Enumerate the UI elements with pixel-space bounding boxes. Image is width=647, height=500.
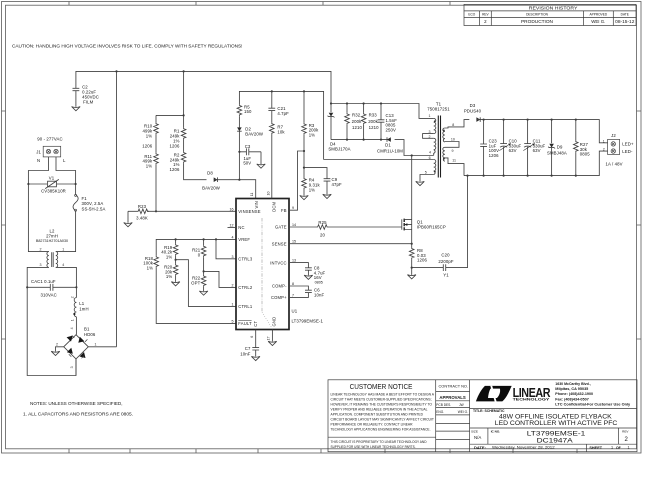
svg-text:CT: CT bbox=[253, 321, 258, 327]
svg-text:2: 2 bbox=[232, 283, 234, 287]
svg-text:DATE:: DATE: bbox=[474, 445, 486, 450]
svg-text:NC: NC bbox=[238, 225, 244, 230]
svg-text:1210: 1210 bbox=[352, 125, 362, 130]
svg-text:APPROVALS: APPROVALS bbox=[439, 395, 466, 400]
svg-text:1A / 48V: 1A / 48V bbox=[606, 161, 623, 166]
capacitor C2 bbox=[73, 85, 99, 107]
svg-text:LED+: LED+ bbox=[622, 142, 634, 147]
ground at C3 bbox=[257, 164, 266, 168]
svg-text:CUSTOMER NOTICE: CUSTOMER NOTICE bbox=[350, 382, 413, 391]
resistor R20 bbox=[164, 264, 178, 279]
wire C8 to ground bbox=[307, 270, 309, 275]
svg-text:5: 5 bbox=[425, 170, 427, 174]
resistor R4 bbox=[302, 178, 321, 193]
varistor V1 bbox=[27, 175, 76, 193]
capacitor C8 bbox=[305, 265, 326, 284]
svg-text:GND: GND bbox=[272, 317, 277, 327]
svg-text:1%: 1% bbox=[166, 255, 172, 260]
svg-text:VINSENSE: VINSENSE bbox=[238, 209, 260, 214]
wire DC+ bus vertical bbox=[116, 71, 118, 346]
wire R5 to D2 bbox=[238, 116, 240, 127]
svg-text:1206: 1206 bbox=[170, 167, 180, 172]
diode D2 bbox=[237, 126, 264, 136]
resistor R10 bbox=[142, 115, 158, 148]
svg-text:TITLE: SCHEMATIC: TITLE: SCHEMATIC bbox=[473, 409, 505, 413]
svg-text:REV: REV bbox=[622, 429, 629, 433]
svg-text:1: 1 bbox=[232, 302, 234, 306]
capacitor CAC1 bbox=[26, 279, 77, 297]
wire R20 to ground bbox=[175, 276, 177, 282]
svg-text:LED CONTROLLER WITH ACTIVE PFC: LED CONTROLLER WITH ACTIVE PFC bbox=[495, 420, 618, 427]
ground at C2 bbox=[72, 107, 81, 111]
svg-text:1: 1 bbox=[603, 139, 605, 143]
wire R7 to U1 DCM pin10 bbox=[271, 135, 273, 199]
Linear Technology logo bbox=[476, 382, 630, 407]
svg-text:2: 2 bbox=[71, 296, 75, 298]
svg-text:Y1: Y1 bbox=[443, 273, 449, 278]
svg-text:IPB60R165CP: IPB60R165CP bbox=[417, 225, 446, 230]
svg-text:2: 2 bbox=[429, 135, 431, 139]
svg-text:SMBJ48A: SMBJ48A bbox=[547, 150, 567, 155]
svg-text:4: 4 bbox=[62, 263, 64, 267]
wire R21/R22 node to CTRL2, U1 pin2 bbox=[204, 257, 236, 287]
svg-text:9: 9 bbox=[292, 206, 294, 210]
svg-text:D9: D9 bbox=[557, 145, 563, 150]
wire R22 to ground bbox=[203, 287, 205, 291]
svg-text:Phone: (408)432-1900: Phone: (408)432-1900 bbox=[555, 392, 593, 396]
svg-text:11: 11 bbox=[250, 193, 254, 197]
svg-text:6: 6 bbox=[250, 336, 254, 338]
svg-text:SS-5H-2.5A: SS-5H-2.5A bbox=[82, 206, 106, 211]
svg-text:8: 8 bbox=[452, 123, 454, 127]
wire T1 pin11 to output return bbox=[445, 158, 464, 176]
svg-text:CTRL2: CTRL2 bbox=[238, 285, 253, 290]
svg-text:4: 4 bbox=[232, 235, 234, 239]
svg-text:DCM: DCM bbox=[271, 201, 276, 211]
wire J1-L to fuse rail bbox=[56, 157, 76, 195]
wire VINSENSE node to U1 pin16 bbox=[156, 210, 236, 212]
wire C9 to ground bbox=[326, 181, 328, 194]
svg-text:27mH: 27mH bbox=[46, 233, 58, 238]
svg-text:PRODUCTION: PRODUCTION bbox=[521, 19, 553, 24]
svg-text:3: 3 bbox=[40, 263, 42, 267]
svg-text:10: 10 bbox=[451, 137, 455, 141]
wire output bottom rail bbox=[464, 151, 608, 177]
wire R23 to ground bbox=[127, 211, 129, 223]
svg-text:1206: 1206 bbox=[417, 258, 427, 263]
fuse F1 bbox=[73, 194, 105, 211]
svg-text:LT3799EMSE-1: LT3799EMSE-1 bbox=[292, 318, 324, 323]
svg-text:CMR1U-10M: CMR1U-10M bbox=[377, 149, 403, 154]
wire U1 SENSE pin15 to R8 node bbox=[289, 243, 413, 245]
ground at R23 bbox=[124, 223, 133, 227]
wire bias rail bbox=[239, 90, 323, 159]
svg-text:1206: 1206 bbox=[142, 144, 152, 149]
wire C21 to R7 bbox=[271, 111, 273, 123]
title block bbox=[328, 380, 637, 452]
svg-text:4: 4 bbox=[70, 327, 74, 329]
wire VREF rail bbox=[156, 238, 236, 256]
svg-text:PCB DES.: PCB DES. bbox=[436, 403, 451, 407]
svg-text:15: 15 bbox=[292, 240, 296, 244]
svg-text:1: 1 bbox=[62, 247, 64, 251]
svg-text:Wednesday, November 28, 2012: Wednesday, November 28, 2012 bbox=[492, 445, 555, 450]
svg-text:9: 9 bbox=[452, 149, 454, 153]
svg-text:1%: 1% bbox=[309, 133, 315, 138]
svg-text:GATE: GATE bbox=[275, 225, 287, 230]
wire FB node to U1 pin9 bbox=[289, 151, 304, 210]
svg-text:CIRCUIT THAT MEETS CUSTOMER-SU: CIRCUIT THAT MEETS CUSTOMER-SUPPLIED SPE… bbox=[331, 397, 432, 401]
svg-text:ENG.: ENG. bbox=[436, 410, 444, 414]
capacitor C13 bbox=[378, 104, 398, 140]
svg-text:PERFORMANCE OR RELIABILITY. C: PERFORMANCE OR RELIABILITY. CONTACT LINE… bbox=[331, 422, 414, 426]
svg-text:150: 150 bbox=[244, 109, 252, 114]
transistor Q1 bbox=[402, 219, 446, 231]
svg-text:IC NO.: IC NO. bbox=[491, 429, 501, 433]
wire R3 to FB node and R4 bbox=[303, 135, 305, 178]
wire left AC rail down to L2 pin2 bbox=[28, 184, 48, 252]
resistor R22 bbox=[191, 275, 206, 287]
ground at C9 bbox=[323, 194, 332, 198]
connector J1 (AC input) bbox=[36, 137, 66, 164]
capacitor C23 bbox=[480, 120, 499, 176]
svg-text:B82731H2701A030: B82731H2701A030 bbox=[36, 239, 68, 243]
svg-text:N: N bbox=[37, 158, 40, 163]
svg-text:ECO: ECO bbox=[468, 13, 475, 17]
svg-text:CTRL3: CTRL3 bbox=[238, 257, 253, 262]
resistor R3 bbox=[302, 91, 319, 137]
svg-text:FILM: FILM bbox=[83, 99, 94, 104]
svg-text:R23: R23 bbox=[138, 204, 147, 209]
svg-text:12: 12 bbox=[230, 224, 234, 228]
svg-text:11: 11 bbox=[452, 159, 456, 163]
svg-text:1: 1 bbox=[628, 445, 630, 449]
wire D8 to VIN node bbox=[214, 179, 256, 199]
svg-text:JW: JW bbox=[459, 403, 464, 407]
capacitor C21 bbox=[268, 91, 289, 115]
svg-text:6: 6 bbox=[429, 156, 431, 160]
svg-text:200k: 200k bbox=[368, 119, 378, 124]
wire R11 to VINSENSE node bbox=[155, 165, 157, 213]
svg-text:CAUTION: HANDLING HIGH VOLTAGE: CAUTION: HANDLING HIGH VOLTAGE INVOLVES … bbox=[12, 43, 243, 48]
svg-text:C20: C20 bbox=[441, 253, 450, 258]
svg-text:1mH: 1mH bbox=[79, 306, 88, 311]
svg-text:HOWEVER, IT REMAINS THE CUSTOM: HOWEVER, IT REMAINS THE CUSTOMER'S RESPO… bbox=[331, 402, 433, 406]
svg-text:APPROVED: APPROVED bbox=[589, 13, 607, 17]
svg-text:1: 1 bbox=[429, 114, 431, 118]
svg-text:Fax: (408)434-0507: Fax: (408)434-0507 bbox=[555, 397, 589, 401]
wire T1 pin10 to pin9 link bbox=[445, 137, 459, 153]
resistor R27 bbox=[574, 120, 591, 176]
svg-text:D1: D1 bbox=[385, 143, 391, 148]
svg-text:BAV20W: BAV20W bbox=[245, 132, 264, 137]
svg-text:OF: OF bbox=[616, 446, 621, 450]
svg-text:8: 8 bbox=[292, 282, 294, 286]
wire U1 CT pin6 to C7 bbox=[255, 330, 257, 348]
resistor R25 bbox=[317, 220, 329, 238]
svg-text:17: 17 bbox=[267, 337, 271, 341]
ground at R22 bbox=[199, 291, 208, 295]
svg-text:0805: 0805 bbox=[580, 152, 590, 157]
svg-text:VIN: VIN bbox=[254, 201, 259, 208]
wire R4 to ground bbox=[303, 190, 305, 196]
resistor R2 bbox=[170, 151, 186, 172]
resistor R1 bbox=[170, 128, 186, 149]
ground at C8 bbox=[304, 275, 313, 279]
wire U1 GND pin17 bbox=[271, 330, 273, 342]
svg-text:2: 2 bbox=[40, 247, 42, 251]
svg-text:2200pF: 2200pF bbox=[438, 259, 453, 264]
wire U1 INTVCC pin13 to C8 bbox=[289, 263, 308, 268]
wire B1 pin3 down bbox=[75, 359, 77, 376]
svg-text:47pF: 47pF bbox=[332, 182, 342, 187]
svg-text:J1: J1 bbox=[36, 149, 41, 154]
svg-text:3.48K: 3.48K bbox=[136, 216, 148, 221]
svg-text:63V: 63V bbox=[509, 148, 517, 153]
svg-text:1206: 1206 bbox=[170, 143, 180, 148]
svg-text:1206: 1206 bbox=[489, 153, 499, 158]
svg-text:16: 16 bbox=[230, 207, 234, 211]
ground at C7 bbox=[251, 356, 260, 360]
svg-text:20: 20 bbox=[320, 233, 325, 238]
svg-text:SUPPLIED FOR USE WITH LINEAR T: SUPPLIED FOR USE WITH LINEAR TECHNOLOGY … bbox=[331, 445, 416, 449]
svg-text:63V: 63V bbox=[533, 148, 541, 153]
svg-text:750817251: 750817251 bbox=[427, 107, 450, 112]
resistor R33 bbox=[361, 104, 379, 140]
svg-text:DATE: DATE bbox=[621, 13, 629, 17]
svg-text:1%: 1% bbox=[146, 164, 152, 169]
wire R18 to FAULT line, U1 pin5 bbox=[156, 268, 236, 324]
wire VREF to CTRL3, U1 pin3 bbox=[216, 239, 236, 258]
svg-text:1: 1 bbox=[611, 445, 613, 449]
svg-text:D8: D8 bbox=[207, 171, 213, 176]
wire R2 to D8 bbox=[184, 163, 207, 179]
zener D9 bbox=[547, 120, 567, 176]
wire C3 to ground bbox=[260, 152, 262, 164]
svg-text:SIZE: SIZE bbox=[471, 429, 478, 433]
svg-text:310VAC: 310VAC bbox=[41, 293, 57, 298]
svg-text:14: 14 bbox=[292, 223, 296, 227]
wire R10 to R11 bbox=[155, 135, 157, 153]
svg-text:10: 10 bbox=[267, 192, 271, 196]
wire CAC1 left rail down to B1 pin3 loop bbox=[27, 287, 76, 375]
svg-text:PDUS40: PDUS40 bbox=[464, 109, 482, 114]
wire B1 pin2 to ground bbox=[56, 347, 64, 352]
ground at R20 bbox=[171, 282, 180, 286]
svg-text:TECHNOLOGY APPLICATIONS ENGINE: TECHNOLOGY APPLICATIONS ENGINEERING FOR … bbox=[331, 427, 431, 431]
svg-text:VREF: VREF bbox=[238, 237, 250, 242]
svg-text:3: 3 bbox=[232, 255, 234, 259]
diode D3 bbox=[464, 103, 482, 122]
svg-text:50V: 50V bbox=[243, 160, 251, 165]
svg-text:R32: R32 bbox=[352, 113, 361, 118]
svg-text:OPT: OPT bbox=[191, 280, 200, 285]
svg-text:DC1947A: DC1947A bbox=[537, 437, 574, 444]
svg-text:REVISION HISTORY: REVISION HISTORY bbox=[529, 5, 578, 10]
svg-text:NOTES: UNLESS OTHERWISE SPECIF: NOTES: UNLESS OTHERWISE SPECIFIED, bbox=[30, 401, 122, 406]
wire R1 to R2 bbox=[183, 140, 185, 152]
wire Q1 drain/source vertical bbox=[411, 156, 413, 244]
revision history table bbox=[464, 4, 636, 25]
svg-text:FB: FB bbox=[281, 208, 287, 213]
capacitor C7 bbox=[240, 346, 259, 357]
wire clamp top rail bbox=[330, 102, 434, 118]
svg-text:1. ALL CAPACITORS AND RESISTOR: 1. ALL CAPACITORS AND RESISTORS ARE 0805… bbox=[23, 412, 133, 417]
svg-text:V1: V1 bbox=[49, 175, 55, 180]
svg-text:TECHNOLOGY: TECHNOLOGY bbox=[513, 398, 551, 402]
svg-text:R33: R33 bbox=[369, 113, 378, 118]
capacitor C9 bbox=[304, 168, 342, 187]
wire L2 pin3 to CAC1 left rail bbox=[27, 267, 49, 287]
svg-text:LTC Confidential-For Customer: LTC Confidential-For Customer Use Only bbox=[555, 402, 630, 406]
svg-text:Milpitas, CA 95035: Milpitas, CA 95035 bbox=[555, 387, 588, 391]
wire J1-N to left AC rail bbox=[28, 157, 48, 184]
svg-text:13: 13 bbox=[292, 259, 296, 263]
svg-text:WEI G.: WEI G. bbox=[591, 19, 605, 24]
transformer T1 bbox=[420, 102, 450, 182]
wire L2 pin4 to CAC1 right rail bbox=[56, 267, 77, 287]
resistor R18 bbox=[143, 256, 158, 271]
wire top DC+ rail bbox=[76, 70, 331, 103]
diode D8 bbox=[202, 171, 221, 191]
svg-text:1: 1 bbox=[71, 319, 75, 321]
bridge rectifier B1 bbox=[56, 327, 97, 369]
ground at T1 pin5 bbox=[416, 181, 425, 185]
svg-text:3: 3 bbox=[70, 366, 74, 368]
svg-text:4.7pF: 4.7pF bbox=[277, 111, 289, 116]
resistor R32 bbox=[345, 104, 363, 140]
svg-text:16V: 16V bbox=[314, 275, 322, 280]
svg-text:4: 4 bbox=[429, 151, 431, 155]
svg-text:10k: 10k bbox=[277, 129, 285, 134]
svg-text:1%: 1% bbox=[166, 274, 172, 279]
wire U1 GATE pin14 to R25 bbox=[289, 226, 317, 228]
svg-text:THIS CIRCUIT IS PROPRIETARY TO: THIS CIRCUIT IS PROPRIETARY TO LINEAR TE… bbox=[331, 440, 428, 444]
svg-text:5: 5 bbox=[232, 319, 234, 323]
svg-text:COMP+: COMP+ bbox=[271, 295, 287, 300]
svg-text:BAV20W: BAV20W bbox=[202, 185, 221, 190]
resistor R23 bbox=[128, 204, 156, 220]
wire clamp bottom rail bbox=[331, 139, 391, 141]
svg-text:DESCRIPTION: DESCRIPTION bbox=[526, 13, 548, 17]
wire output top rail bbox=[476, 119, 607, 143]
connector J2 (LED output) bbox=[603, 133, 634, 167]
svg-text:APPLICATION. COMPONENT SUBSTIT: APPLICATION. COMPONENT SUBSTITUTION AND … bbox=[331, 412, 424, 416]
inductor L1 bbox=[71, 287, 89, 334]
svg-text:LED-: LED- bbox=[622, 149, 633, 154]
capacitor C20 bbox=[412, 176, 468, 278]
svg-text:COMP-: COMP- bbox=[272, 284, 287, 289]
ground at B1 pin2 bbox=[51, 351, 60, 355]
resistor R11 bbox=[142, 153, 158, 169]
wire D1 to drain node bbox=[395, 140, 434, 157]
svg-text:SENSE: SENSE bbox=[272, 241, 287, 246]
capacitor C6 between COMP pins bbox=[289, 286, 324, 298]
wire T1 pin8 to D3 bbox=[445, 120, 469, 128]
svg-text:CTRL1: CTRL1 bbox=[238, 304, 253, 309]
svg-text:1%: 1% bbox=[309, 187, 315, 192]
svg-text:1210: 1210 bbox=[369, 125, 379, 130]
svg-text:SHEET: SHEET bbox=[589, 446, 602, 450]
capacitor C3 bbox=[239, 144, 261, 165]
svg-text:90 - 277VAC: 90 - 277VAC bbox=[37, 137, 62, 142]
svg-text:INTVCC: INTVCC bbox=[270, 260, 287, 265]
common mode choke L2 bbox=[36, 228, 68, 267]
wire R8 to ground bbox=[411, 259, 413, 275]
svg-text:D3: D3 bbox=[470, 103, 476, 108]
svg-text:R25: R25 bbox=[318, 220, 327, 225]
svg-text:CAC1 0.1uF: CAC1 0.1uF bbox=[31, 279, 56, 284]
svg-text:2: 2 bbox=[56, 342, 58, 346]
svg-text:1%: 1% bbox=[146, 133, 152, 138]
wire R25 to Q1 gate bbox=[329, 226, 402, 228]
svg-text:CONTRACT NO.: CONTRACT NO. bbox=[439, 384, 469, 389]
wire D2 to VIN node bbox=[238, 131, 240, 180]
svg-text:1630 McCarthy Blvd.,: 1630 McCarthy Blvd., bbox=[555, 382, 590, 386]
svg-text:1: 1 bbox=[95, 342, 97, 346]
svg-text:10nF: 10nF bbox=[314, 293, 324, 298]
svg-text:REV: REV bbox=[482, 13, 489, 17]
notes text bbox=[23, 401, 133, 417]
svg-text:VERIFY PROPER AND RELIABLE OPE: VERIFY PROPER AND RELIABLE OPERATION IN … bbox=[331, 407, 428, 411]
svg-text:1%: 1% bbox=[147, 266, 153, 271]
svg-text:C7: C7 bbox=[245, 346, 251, 351]
capacitor C10 bbox=[499, 120, 521, 176]
svg-text:250V: 250V bbox=[386, 128, 396, 133]
resistor R7 bbox=[270, 123, 286, 135]
svg-text:C3: C3 bbox=[245, 144, 251, 149]
ground at R8 bbox=[407, 275, 416, 279]
resistor R5 bbox=[237, 104, 252, 116]
svg-text:U1: U1 bbox=[292, 309, 298, 314]
svg-text:FAULT: FAULT bbox=[238, 321, 252, 326]
resistor R19 bbox=[161, 239, 178, 260]
svg-text:0805: 0805 bbox=[315, 281, 323, 285]
wire R1 chain from DC+ rail bbox=[156, 71, 185, 127]
zener D4 bbox=[328, 104, 351, 152]
svg-text:WEI G.: WEI G. bbox=[458, 410, 468, 414]
resistor R21 bbox=[192, 239, 206, 272]
svg-text:10nF: 10nF bbox=[240, 351, 250, 356]
svg-text:HD06: HD06 bbox=[84, 332, 96, 337]
svg-text:200k: 200k bbox=[352, 119, 362, 124]
svg-text:J2: J2 bbox=[611, 133, 616, 138]
svg-text:LINEAR TECHNOLOGY HAS MADE A B: LINEAR TECHNOLOGY HAS MADE A BEST EFFORT… bbox=[331, 392, 435, 396]
resistor R8 bbox=[409, 244, 427, 269]
svg-text:08-15-12: 08-15-12 bbox=[615, 19, 635, 24]
wire R19/R20 node to CTRL1, U1 pin1 bbox=[176, 256, 236, 307]
wire B1 pin1 to DC bus bbox=[88, 346, 116, 348]
svg-text:CV385K10R: CV385K10R bbox=[41, 189, 66, 194]
svg-text:7: 7 bbox=[292, 293, 294, 297]
wire fuse to L2 pin1 bbox=[56, 211, 76, 252]
capacitor C11 bbox=[523, 120, 545, 176]
svg-text:N/A: N/A bbox=[474, 435, 481, 440]
svg-text:SMBJ170A: SMBJ170A bbox=[328, 146, 350, 151]
svg-text:CIRCUIT BOARD LAYOUT MAY SIGNI: CIRCUIT BOARD LAYOUT MAY SIGNIFICANTLY A… bbox=[331, 417, 435, 421]
op-amp U1 LT3799EMSE-1 bbox=[228, 192, 324, 341]
svg-text:2: 2 bbox=[603, 148, 605, 152]
ground at R4 bbox=[300, 196, 309, 200]
diode D1 bbox=[377, 137, 403, 153]
ground at U1 GND bbox=[268, 341, 277, 345]
wire bias winding lead bbox=[324, 159, 434, 161]
